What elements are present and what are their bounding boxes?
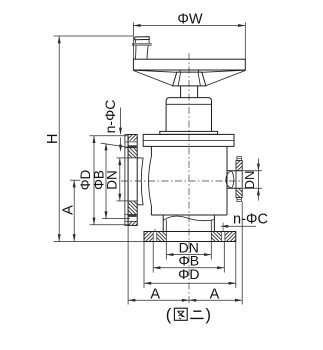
PhiW right arrow xyxy=(238,24,245,27)
DN bottom dimension line xyxy=(166,254,211,256)
PhiD bottom dimension line xyxy=(144,282,236,284)
svg-text:ΦD: ΦD xyxy=(178,266,199,282)
left pipe end face xyxy=(125,135,128,226)
rim underside edge right xyxy=(197,70,199,72)
PhiD-left bottom extension xyxy=(90,224,130,226)
bottom neck break wave xyxy=(163,216,214,221)
left flange top bolt dark fill xyxy=(129,145,137,147)
PhiB bottom extension lines xyxy=(152,242,154,273)
PhiB-left top slanted extension xyxy=(101,143,132,148)
svg-text:DN: DN xyxy=(104,170,119,190)
n-PhiC upper leader second segment xyxy=(120,138,122,146)
handle cap xyxy=(135,37,150,40)
dimension PhiW extension lines xyxy=(132,22,134,59)
DN-right arrow up xyxy=(257,188,260,195)
left flange bottom bolt hole xyxy=(125,213,137,215)
bottom flange partitions xyxy=(152,232,154,242)
right port tube xyxy=(227,171,242,189)
H dimension line xyxy=(58,36,60,242)
bottom flange bolt center marks xyxy=(154,229,156,232)
DN bottom extension lines xyxy=(165,242,167,260)
spoke left upper xyxy=(133,70,176,72)
right port break curve inner xyxy=(232,171,234,188)
bonnet cap line xyxy=(166,103,211,105)
bottom flange xyxy=(144,232,236,242)
base extension line xyxy=(54,241,144,243)
PhiD-left dimension line xyxy=(93,136,95,225)
n-PhiC upper leader second arrow xyxy=(119,145,122,152)
H top arrow xyxy=(58,36,61,43)
n-PhiC lower leader arrow xyxy=(221,225,228,228)
svg-text:n-ΦC: n-ΦC xyxy=(102,100,118,134)
bonnet step plate xyxy=(160,131,218,134)
right port studs xyxy=(237,157,242,161)
body-to-socket inner curve xyxy=(149,156,152,205)
svg-text:(: ( xyxy=(166,306,172,324)
wheel hub xyxy=(173,72,206,86)
PhiD-left top extension xyxy=(90,135,129,137)
svg-text:): ) xyxy=(206,306,212,324)
A-left bottom arrow xyxy=(73,234,76,241)
spoke right upper xyxy=(202,70,246,72)
horizontal centerline (pipe axis) xyxy=(121,180,243,182)
svg-text:A: A xyxy=(61,205,77,215)
valve stem xyxy=(181,86,198,98)
A-A bottom dimension line xyxy=(128,299,242,301)
svg-text:A: A xyxy=(210,287,220,303)
DN-right dimension line xyxy=(257,159,259,201)
DN-left top tick xyxy=(117,157,130,159)
A-A right arrow xyxy=(235,299,242,302)
left flange bore lines xyxy=(128,157,137,159)
handwheel rim xyxy=(133,59,245,70)
A-A left arrow xyxy=(128,299,135,302)
vertical centerline xyxy=(188,53,190,305)
H top extension line xyxy=(54,35,133,37)
DN-left bottom tick xyxy=(117,200,130,202)
top flange plate mid line xyxy=(143,139,234,141)
svg-text:H: H xyxy=(45,134,61,144)
bonnet xyxy=(166,98,211,132)
bottom neck outer walls xyxy=(163,215,214,232)
handle cap-to-collar sides xyxy=(135,39,149,43)
n-PhiC upper leader xyxy=(120,108,122,134)
valve body outline xyxy=(151,146,227,215)
left flange top bolt hole xyxy=(125,141,137,143)
A-left dimension line xyxy=(73,180,75,241)
svg-text:DN: DN xyxy=(242,171,257,190)
caption character ER (two) xyxy=(190,311,203,318)
handle collar (gray band) xyxy=(132,43,151,45)
A-left top tick xyxy=(70,179,80,181)
A-A center arrow right-side xyxy=(189,299,196,302)
right port flange slab xyxy=(236,161,242,198)
n-PhiC upper leader arrow xyxy=(119,128,122,135)
n-PhiC lower leader xyxy=(221,225,256,227)
handle shank xyxy=(136,46,149,60)
left flange slab xyxy=(128,135,137,226)
PhiB-left dimension line xyxy=(105,143,107,218)
PhiB-left bottom extension xyxy=(102,218,130,220)
svg-text:ΦW: ΦW xyxy=(177,11,203,27)
left socket lines xyxy=(137,158,143,205)
A-A center arrow left-side xyxy=(182,299,189,302)
PhiB bottom dimension line xyxy=(153,267,224,269)
dimension PhiW line xyxy=(133,25,245,27)
svg-text:A: A xyxy=(150,287,160,303)
DN-right bottom tick xyxy=(243,187,262,189)
A-A extension lines xyxy=(127,226,129,305)
caption character TU (figure) xyxy=(174,308,187,320)
body-to-socket outer curve xyxy=(141,158,143,205)
DN-right arrow down xyxy=(257,164,260,171)
bottom neck bore walls xyxy=(166,220,211,232)
spoke right lower xyxy=(206,71,246,86)
DN-right top tick xyxy=(243,170,262,172)
hub cone silhouette lines xyxy=(178,72,200,86)
body top flange plate xyxy=(143,134,234,146)
svg-text:n-ΦC: n-ΦC xyxy=(233,211,268,227)
rim underside edge left xyxy=(179,70,181,72)
spoke left lower xyxy=(133,71,172,86)
A-left top arrow xyxy=(73,180,76,187)
PhiD bottom extension lines xyxy=(143,242,145,288)
PhiW left arrow xyxy=(133,24,140,27)
H bottom arrow xyxy=(58,234,61,241)
right port break curve outer xyxy=(226,171,232,188)
DN-left dimension line xyxy=(119,158,121,201)
